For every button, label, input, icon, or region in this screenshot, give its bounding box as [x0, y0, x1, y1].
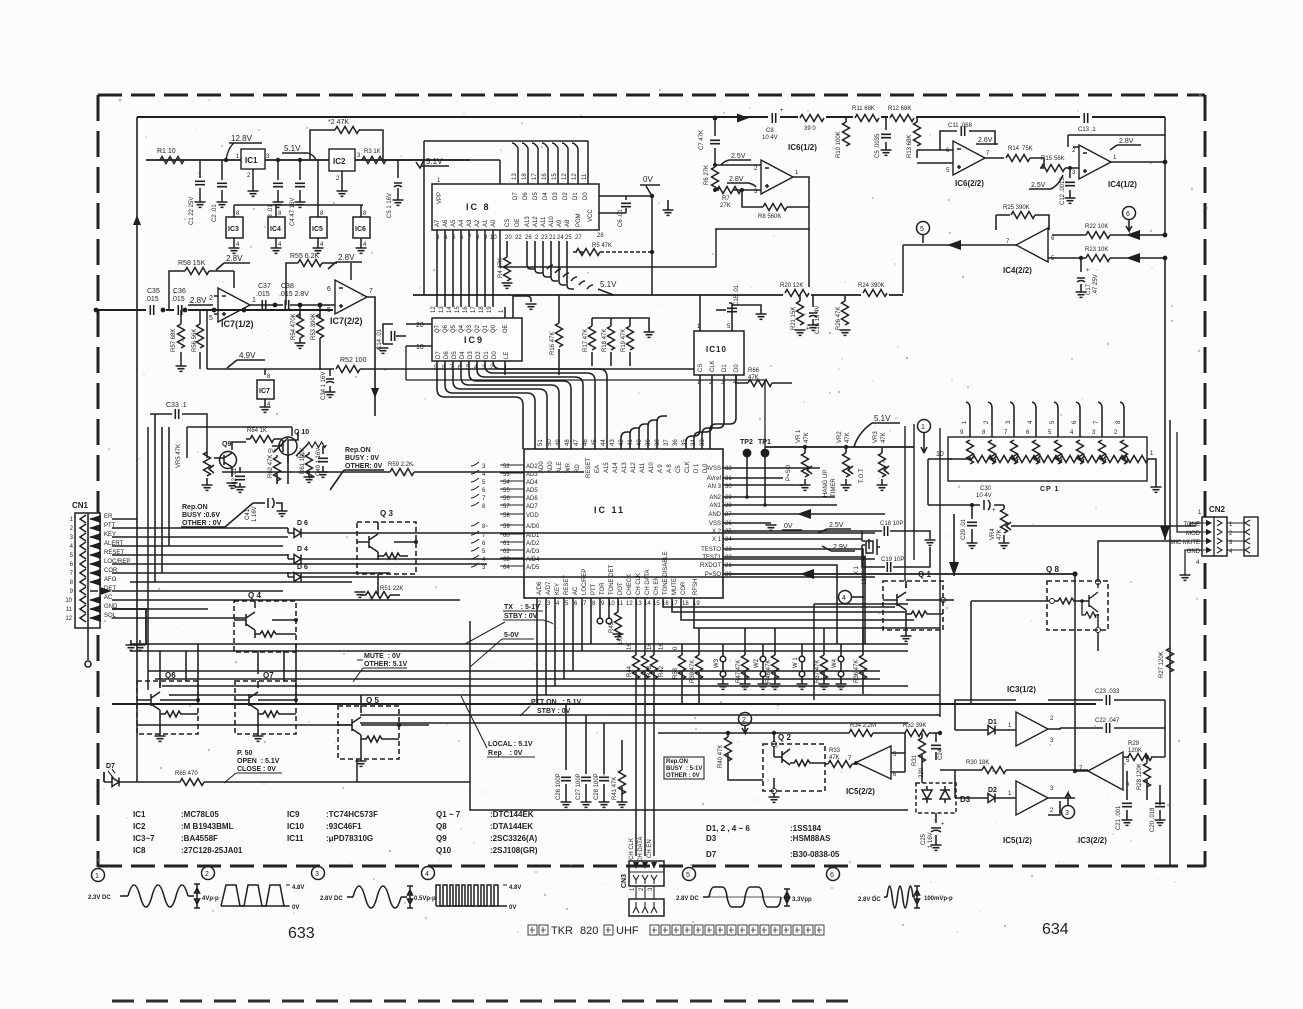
resistor R43 1K [642, 643, 654, 679]
svg-text:C26 100P: C26 100P [556, 773, 562, 800]
svg-text:5: 5 [920, 226, 924, 233]
capacitor C16 10 4V [806, 295, 821, 334]
resistor R4 47K [498, 241, 513, 288]
svg-text:R15: R15 [1041, 156, 1053, 162]
svg-text:1: 1 [252, 297, 256, 304]
svg-text:A9: A9 [557, 219, 563, 227]
svg-text:R36 47K: R36 47K [854, 660, 860, 683]
svg-text:A11: A11 [541, 216, 547, 227]
wire bus y704 thick [112, 703, 1096, 705]
wire IC10 top stubs [697, 295, 732, 331]
wire x954 arrow down to Q1 [949, 514, 959, 576]
svg-text:6: 6 [1126, 211, 1130, 218]
svg-text:12: 12 [431, 306, 437, 313]
trimmer VR1 47K [796, 429, 812, 490]
svg-text:R59 2.2K: R59 2.2K [388, 462, 413, 468]
svg-text:R1 10: R1 10 [157, 148, 176, 155]
svg-text:26: 26 [525, 235, 532, 241]
svg-text:AN2: AN2 [709, 495, 721, 501]
svg-text:CH DATA: CH DATA [638, 837, 644, 862]
svg-text:IC2: IC2 [133, 822, 146, 831]
IC9 left pins 20 10 [406, 322, 432, 351]
grounds below CN1 [126, 640, 146, 650]
capacitor C42 .01 [232, 467, 246, 492]
svg-text:R4 47K: R4 47K [498, 258, 504, 278]
svg-text:P=SO: P=SO [786, 464, 792, 481]
resistor R22 10K row [1052, 224, 1167, 240]
svg-text:AFO: AFO [104, 577, 117, 583]
capacitor C12 .0013 [1060, 168, 1076, 205]
ground right of C6 [663, 200, 674, 215]
wire Q5 riser and row [137, 695, 429, 725]
wire bus y715 [360, 714, 940, 716]
svg-text:CH DATA: CH DATA [645, 570, 651, 595]
svg-text:C22 .047: C22 .047 [1095, 718, 1120, 724]
svg-text:D 6: D 6 [297, 520, 308, 527]
resistor R2 47K feedback over IC2 [310, 119, 383, 160]
circled 6 waveform [827, 868, 840, 881]
op-amp IC5(2/2) reversed [846, 746, 897, 796]
svg-text:38: 38 [655, 439, 661, 446]
circled 1 waveform [92, 869, 105, 882]
svg-text:Q7: Q7 [435, 324, 441, 333]
svg-text:21: 21 [549, 235, 556, 241]
svg-text:D2: D2 [476, 351, 482, 359]
regulator IC1 [236, 149, 270, 196]
svg-text:STBY : 0V: STBY : 0V [504, 613, 538, 620]
svg-text:R32 39K: R32 39K [903, 723, 926, 729]
svg-text:Q 2: Q 2 [778, 733, 791, 742]
svg-text:18: 18 [522, 173, 528, 180]
svg-text:C1 22 25V: C1 22 25V [189, 197, 195, 225]
wire R30 row [940, 760, 1088, 774]
IC9 box [432, 318, 522, 361]
svg-text:VR3: VR3 [873, 431, 879, 443]
trimmer VR2 47K [837, 431, 853, 491]
svg-text:48: 48 [565, 439, 571, 446]
svg-text:TEST1: TEST1 [702, 555, 721, 561]
svg-text:75K: 75K [1022, 146, 1033, 152]
arrow down right vertical [1160, 526, 1170, 540]
wire AN0 row with arrow [723, 509, 885, 519]
diode D1 [955, 700, 1016, 735]
svg-text:COR: COR [681, 581, 687, 595]
waveform 6 sine [858, 886, 953, 908]
svg-text:.47 25V: .47 25V [1093, 274, 1099, 295]
waveform 5 trapezoid [676, 887, 812, 907]
wire Q8 top to MIC MUTE row [1098, 541, 1180, 580]
svg-text:C34 1 16V: C34 1 16V [321, 372, 327, 400]
CP1 pin1 to ground [1147, 459, 1162, 492]
resistor R3 1K [362, 149, 386, 164]
svg-text:R21 15K: R21 15K [791, 307, 797, 330]
svg-text:Q0: Q0 [491, 324, 497, 333]
svg-text:A14: A14 [613, 462, 619, 473]
svg-text:IC9: IC9 [464, 335, 484, 345]
svg-text:IC10: IC10 [287, 822, 304, 831]
svg-text:A8: A8 [565, 219, 571, 227]
svg-text:1K: 1K [659, 643, 665, 650]
bypass IC6 [353, 205, 370, 253]
label Rep.ON BUSY :0V OTHER:0V upper [330, 447, 384, 490]
resistor R29 120K [1123, 741, 1165, 761]
bypass IC3 [226, 205, 243, 253]
resistor R51 22K [355, 574, 404, 599]
wire bus y679 [155, 678, 880, 680]
IC8 box [432, 178, 599, 230]
svg-text:D7: D7 [706, 850, 717, 859]
svg-text:42: 42 [619, 439, 625, 446]
resistor R45 1K [609, 598, 624, 645]
svg-text:27: 27 [575, 235, 582, 241]
resistor R57 68K [171, 310, 187, 371]
svg-text:R20 12K: R20 12K [780, 283, 803, 289]
svg-text:IC9: IC9 [287, 810, 300, 819]
CN2 label [1198, 505, 1226, 516]
svg-text:AVSS: AVSS [705, 466, 721, 472]
resistor R55 6.2K feedback [286, 253, 337, 305]
svg-text:X 1: X 1 [854, 565, 860, 575]
svg-text:D6: D6 [523, 192, 529, 200]
junction dot at C7 tap [713, 116, 718, 121]
svg-text:1K: 1K [618, 638, 624, 645]
svg-text:VR 1: VR 1 [796, 429, 802, 443]
svg-text:5: 5 [209, 315, 213, 322]
IC11 bottom pin numbers [538, 601, 700, 607]
svg-text::1SS184: :1SS184 [790, 824, 822, 833]
wire diode feed verticals [287, 528, 289, 577]
svg-text:0V: 0V [292, 905, 299, 911]
wire left vertical x148 [147, 427, 149, 690]
caption CJK blocks [528, 925, 824, 935]
svg-text:IC6(2/2): IC6(2/2) [955, 179, 984, 188]
svg-text:IC7(1/2): IC7(1/2) [221, 319, 254, 329]
svg-text:.015: .015 [171, 296, 185, 303]
svg-text:16: 16 [463, 306, 469, 313]
diode D2 [988, 787, 1016, 803]
svg-text:CP 1: CP 1 [1040, 486, 1059, 493]
svg-text:A13: A13 [525, 216, 531, 227]
label 2.9V at X1 [822, 544, 855, 551]
svg-text:A7: A7 [435, 219, 441, 227]
svg-text:IC7: IC7 [259, 388, 270, 395]
svg-text:C23 .033: C23 .033 [1095, 689, 1120, 695]
svg-text:IC 8: IC 8 [466, 202, 491, 212]
svg-text:A/D0: A/D0 [526, 524, 540, 530]
svg-text:A12: A12 [533, 216, 539, 227]
svg-text:Q 10: Q 10 [294, 429, 309, 436]
svg-text:R31: R31 [912, 754, 918, 766]
IC8 bottom pin numbers [436, 233, 604, 241]
svg-text:14: 14 [447, 306, 453, 313]
svg-text:5.1V: 5.1V [874, 414, 891, 423]
svg-text:R41 47K: R41 47K [612, 777, 618, 800]
transistor Q7 dashed box [235, 671, 298, 741]
svg-text:RFSH: RFSH [693, 579, 699, 595]
wire right pin rows [723, 468, 865, 644]
svg-text:23: 23 [541, 235, 548, 241]
svg-text:BUSY : 5-1V: BUSY : 5-1V [666, 766, 702, 772]
svg-text:Rep.ON: Rep.ON [182, 504, 208, 511]
IC9 bottom pin numbers [434, 365, 508, 371]
svg-text:A/D1: A/D1 [526, 533, 540, 539]
wire IC8 right pins curl fan [527, 241, 593, 289]
jumper W1 [793, 644, 808, 689]
arrow on top rail [737, 114, 749, 123]
svg-text:10 4V: 10 4V [976, 493, 992, 499]
svg-text:D0: D0 [492, 351, 498, 359]
svg-text:44: 44 [601, 439, 607, 446]
svg-text:3: 3 [1065, 810, 1069, 817]
wire 5.1V bus y295 [413, 294, 903, 296]
svg-text::BA4558F: :BA4558F [181, 834, 218, 843]
op-amp IC3(2/2) reversed [1078, 752, 1130, 845]
svg-text:41: 41 [628, 439, 634, 446]
capacitor C37 .015 [256, 283, 277, 310]
svg-text:AD0: AD0 [548, 461, 554, 473]
circled 5 [917, 222, 930, 244]
svg-text:IC8: IC8 [133, 846, 146, 855]
svg-text:50: 50 [547, 439, 553, 446]
resistor R10 100K [836, 118, 850, 158]
svg-text:20: 20 [505, 235, 512, 241]
capacitor C24 [931, 733, 944, 760]
svg-text:ER: ER [104, 514, 113, 520]
svg-text:A11: A11 [640, 462, 646, 473]
svg-text:Q 5: Q 5 [366, 696, 379, 705]
svg-text:R58 15K: R58 15K [178, 260, 206, 267]
svg-text:IC6: IC6 [355, 226, 366, 233]
IC11 top pin numbers [538, 439, 706, 446]
op-amp IC3(1/2) [1007, 685, 1054, 746]
svg-text:.015: .015 [145, 296, 159, 303]
svg-text:TP1: TP1 [758, 439, 771, 446]
svg-text:13: 13 [512, 173, 518, 180]
capacitor C8 10 4V [762, 108, 784, 141]
svg-text:C24: C24 [938, 748, 944, 760]
svg-text:17: 17 [471, 306, 477, 313]
capacitor C36 .015 [171, 288, 186, 315]
svg-text:Q2: Q2 [475, 324, 481, 333]
svg-text:49: 49 [556, 439, 562, 446]
capacitor C26 100P [556, 704, 572, 807]
labels CH CLK CH DATA CH EN rotated [629, 837, 653, 862]
svg-text:R37 47K: R37 47K [815, 660, 821, 683]
label 5-0V [470, 632, 534, 667]
resistor R5 47K [573, 243, 654, 256]
label 5.1V at IC8 [416, 157, 449, 168]
svg-text:6: 6 [830, 872, 834, 879]
resistor R56 56K [192, 310, 204, 369]
svg-text:AC: AC [573, 586, 579, 595]
svg-text:R24 390K: R24 390K [858, 283, 885, 289]
svg-text:47K: 47K [845, 432, 851, 443]
svg-text:KEY: KEY [555, 583, 561, 595]
wire Q6 Q7 risers [160, 644, 296, 700]
label 2.6V [976, 137, 998, 144]
wire vertical x940 long [939, 428, 941, 717]
wire top rail [137, 116, 1165, 118]
svg-text:25: 25 [725, 529, 732, 535]
open circle below CN1 [85, 628, 91, 667]
svg-text:AD6: AD6 [526, 496, 538, 502]
svg-text:IC5(2/2): IC5(2/2) [846, 787, 875, 796]
svg-text:A2: A2 [475, 219, 481, 227]
svg-text:4.9V: 4.9V [239, 351, 256, 360]
svg-text:R8 560K: R8 560K [758, 214, 781, 220]
svg-text:A1: A1 [483, 219, 489, 227]
svg-text:0.5Vp-p: 0.5Vp-p [414, 896, 436, 902]
svg-text:12: 12 [626, 601, 633, 607]
ground right of IC10 [732, 305, 767, 319]
waveform 1 sine [88, 884, 219, 908]
svg-text:C33 .1: C33 .1 [166, 402, 187, 409]
svg-text:IC5: IC5 [312, 226, 323, 233]
IC10 box [694, 331, 744, 375]
wire data bus above IC8 [424, 141, 588, 295]
svg-text:15: 15 [552, 173, 558, 180]
svg-text::M B1943BML: :M B1943BML [181, 822, 234, 831]
feedback resistor 560 on IC6(1/2) [742, 190, 809, 220]
svg-text:820: 820 [580, 925, 598, 937]
svg-text:R11 68K: R11 68K [852, 106, 875, 112]
svg-text:D1: D1 [573, 192, 579, 200]
transistor Q3 dashed box [307, 442, 418, 574]
svg-text:D 4: D 4 [297, 546, 308, 553]
svg-text:24: 24 [557, 235, 564, 241]
svg-text:4.8V: 4.8V [292, 885, 304, 891]
caption latin text [551, 925, 639, 937]
svg-text:AD7: AD7 [526, 504, 538, 510]
svg-text:DOT: DOT [618, 582, 624, 595]
svg-text:D3: D3 [468, 351, 474, 359]
svg-text:D7: D7 [513, 192, 519, 200]
capacitor C33 .1 [150, 402, 200, 419]
svg-text:A13: A13 [622, 462, 628, 473]
resistor R61 100K [300, 447, 315, 482]
waveform 4 burst [436, 885, 521, 911]
svg-text:R23 10K: R23 10K [1085, 247, 1108, 253]
CN2 box [1202, 517, 1227, 556]
label LOCAL 5.1V Rep 0V [461, 696, 535, 757]
svg-text:D1: D1 [988, 719, 997, 726]
resistor R6 27K [704, 165, 719, 192]
svg-text:TIMER: TIMER [831, 478, 837, 497]
label 2.8V [188, 296, 213, 305]
svg-text:IC7(2/2): IC7(2/2) [330, 316, 363, 326]
svg-text:10 4V: 10 4V [762, 135, 778, 141]
svg-text:IC3(2/2): IC3(2/2) [1078, 836, 1107, 845]
svg-text:6: 6 [327, 286, 331, 293]
capacitor C20 .018 [1150, 785, 1166, 832]
svg-text:36: 36 [673, 439, 679, 446]
svg-text::27C128-25JA01: :27C128-25JA01 [181, 846, 243, 855]
svg-text:2.8V: 2.8V [338, 253, 355, 262]
svg-text:R62 47K: R62 47K [268, 455, 274, 478]
svg-text:43: 43 [610, 439, 616, 446]
svg-text:D1: D1 [484, 351, 490, 359]
IC9 top pin numbers [431, 306, 505, 313]
svg-text:D1, 2 , 4 ~ 6: D1, 2 , 4 ~ 6 [706, 824, 750, 833]
svg-text:R44: R44 [627, 665, 633, 677]
svg-text:TKR: TKR [551, 925, 573, 937]
svg-text:VPP: VPP [437, 192, 443, 204]
svg-text:Q10: Q10 [436, 846, 452, 855]
resistor R32 39K [903, 723, 929, 737]
label 5.1V [854, 414, 900, 447]
svg-text:HANG UP: HANG UP [823, 470, 829, 497]
capacitor C22 .047 [1048, 718, 1165, 733]
CN3 lower box [629, 886, 664, 916]
svg-text:R17 47K: R17 47K [583, 329, 589, 352]
svg-text:18: 18 [479, 306, 485, 313]
svg-text:R45: R45 [609, 621, 615, 633]
svg-text:R57 68K: R57 68K [171, 329, 177, 352]
resistor R12 68K [888, 106, 916, 124]
svg-text:47K: 47K [997, 529, 1003, 540]
transistor Q5 dashed box [338, 696, 401, 766]
svg-text:C7 47K: C7 47K [699, 130, 705, 150]
bypass IC7 [257, 369, 274, 412]
svg-text:C21 .001: C21 .001 [1116, 805, 1122, 830]
wire P=SO down to IC3(2/2) output [1073, 574, 1088, 773]
svg-text::B30-0838-05: :B30-0838-05 [790, 850, 840, 859]
capacitor C2 .01 [212, 160, 228, 222]
svg-text:R29: R29 [1128, 741, 1140, 747]
svg-text:2.8V: 2.8V [226, 254, 243, 263]
label 4.9V [227, 351, 265, 368]
svg-text:C29 .01: C29 .01 [961, 518, 967, 540]
CP1 vertical resistors [967, 440, 1128, 464]
svg-text:OTHER : 0V: OTHER : 0V [666, 773, 700, 779]
svg-text:D4: D4 [543, 192, 549, 200]
svg-text:R61 100K: R61 100K [300, 447, 306, 474]
wire diode rows to right [307, 533, 875, 577]
svg-text:A6: A6 [443, 219, 449, 227]
svg-text:C42 .01: C42 .01 [232, 467, 238, 489]
capacitor C25 1 16V [921, 813, 945, 850]
CN3 upper box [629, 861, 664, 886]
waveform 3 sine [320, 886, 436, 908]
svg-text:R5 47K: R5 47K [592, 243, 612, 249]
resistor R58 0 [673, 644, 686, 704]
svg-text:R7: R7 [722, 196, 730, 202]
CN2 mating connector [1227, 517, 1258, 556]
circled 2 [739, 713, 752, 734]
svg-text:TONE DET: TONE DET [609, 564, 615, 595]
capacitor C30 10 4V [928, 486, 1004, 514]
capacitor C5 1 16V [387, 160, 404, 218]
svg-text:2: 2 [742, 717, 746, 724]
wire R59 2.2K row [310, 462, 584, 476]
svg-text:1K: 1K [627, 643, 633, 650]
page border dashed frame [98, 95, 1205, 867]
wire Q2 output to IC5 input lower [954, 770, 956, 798]
svg-text:CS: CS [698, 364, 704, 372]
capacitor C23 .033 [1048, 689, 1165, 705]
svg-text:BUSY : 0V: BUSY : 0V [345, 455, 379, 462]
transistor Q4 dashed box [234, 591, 298, 652]
resistor R54 470K [291, 305, 306, 348]
svg-text:D5: D5 [452, 351, 458, 359]
wire junction down to bus [715, 229, 809, 293]
svg-text:D 1: D 1 [694, 463, 700, 473]
svg-text:R47 47K: R47 47K [736, 660, 742, 683]
svg-text:Q5: Q5 [451, 324, 457, 333]
svg-text:CLK: CLK [685, 461, 691, 473]
CN1 pin chevrons [80, 515, 98, 622]
IC11 right pin numbers [725, 466, 732, 578]
